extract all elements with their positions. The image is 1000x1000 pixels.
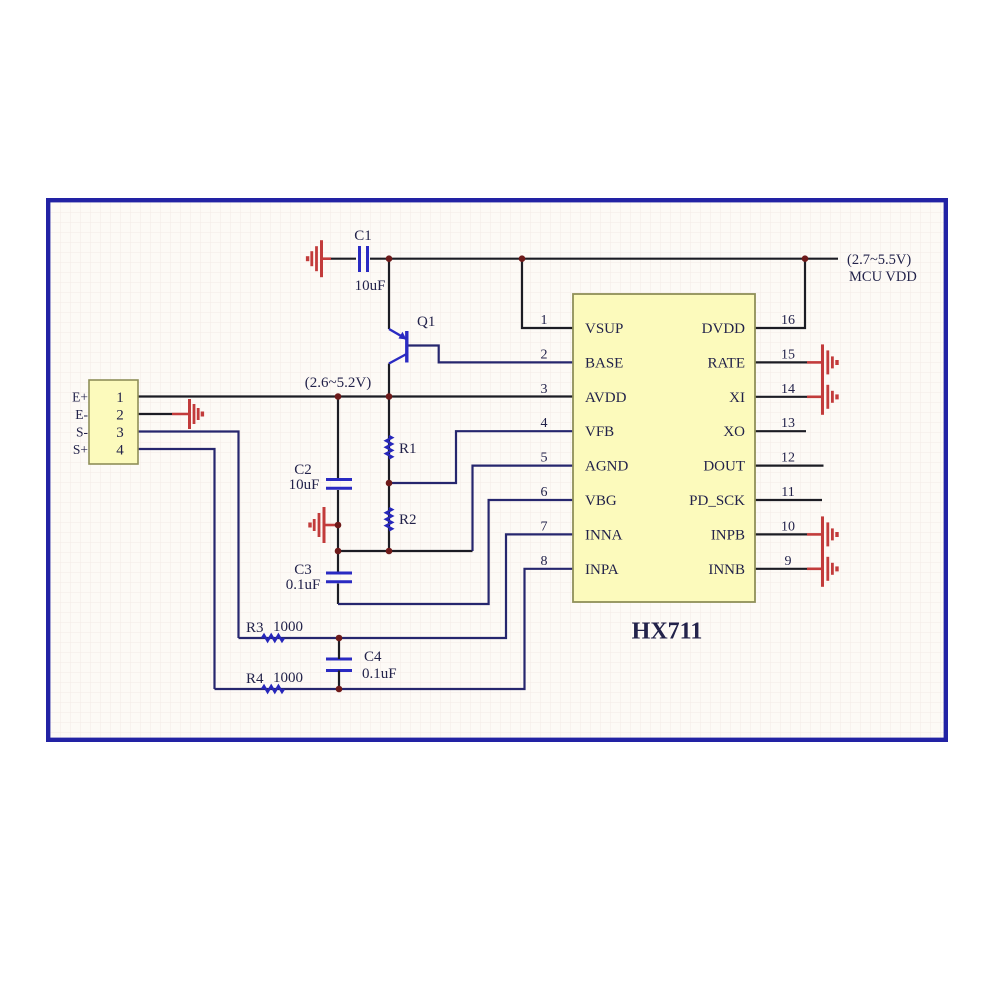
svg-text:(2.7~5.5V): (2.7~5.5V) <box>847 252 911 268</box>
wire C4 taps <box>338 638 340 689</box>
svg-text:S+: S+ <box>73 442 88 457</box>
svg-text:Q1: Q1 <box>417 314 435 330</box>
ground near C2 <box>310 507 338 543</box>
svg-text:C3: C3 <box>294 562 312 578</box>
wire XO stub <box>755 430 806 432</box>
svg-text:AGND: AGND <box>585 459 628 475</box>
svg-text:12: 12 <box>781 451 795 466</box>
wire AGND riser <box>473 466 574 551</box>
svg-text:10uF: 10uF <box>289 477 320 493</box>
wire S+ route <box>138 449 215 689</box>
wire VSUP drop <box>522 259 573 328</box>
svg-text:3: 3 <box>541 382 548 397</box>
wire E- stub <box>138 413 172 415</box>
svg-text:5: 5 <box>541 451 548 466</box>
resistor R4 <box>262 686 284 692</box>
wire VBG route <box>338 500 573 604</box>
svg-text:4: 4 <box>541 416 548 431</box>
resistor R3 <box>262 635 284 641</box>
connector pin numbers <box>116 390 124 459</box>
svg-text:8: 8 <box>541 554 548 569</box>
svg-text:VFB: VFB <box>585 424 614 440</box>
junction dots <box>335 255 809 692</box>
transistor Q1 <box>389 329 407 364</box>
svg-text:0.1uF: 0.1uF <box>362 666 397 682</box>
wire INPA route <box>215 569 574 689</box>
ground at RATE pin15 <box>807 344 837 380</box>
svg-text:DOUT: DOUT <box>703 459 745 475</box>
svg-text:10: 10 <box>781 519 795 534</box>
svg-text:C1: C1 <box>354 228 372 244</box>
ground near E- <box>172 399 202 429</box>
svg-text:10uF: 10uF <box>355 278 386 294</box>
svg-text:C2: C2 <box>294 462 312 478</box>
svg-text:16: 16 <box>781 313 795 328</box>
svg-text:RATE: RATE <box>708 355 746 371</box>
svg-text:XI: XI <box>729 390 745 406</box>
connector pin names <box>72 390 88 458</box>
svg-text:INNB: INNB <box>708 562 745 578</box>
capacitor C1 <box>360 246 368 272</box>
svg-text:INNA: INNA <box>585 527 623 543</box>
IC pin numbers right <box>781 313 795 569</box>
svg-text:13: 13 <box>781 416 795 431</box>
svg-text:3: 3 <box>116 425 124 441</box>
sheet background <box>48 200 946 740</box>
svg-text:15: 15 <box>781 347 795 362</box>
svg-text:E-: E- <box>75 407 88 422</box>
svg-text:VSUP: VSUP <box>585 321 623 337</box>
svg-text:11: 11 <box>781 485 794 500</box>
wire VDD top rail <box>331 258 356 260</box>
svg-text:1: 1 <box>116 390 124 406</box>
svg-text:XO: XO <box>723 424 745 440</box>
IC pin names left <box>585 321 628 578</box>
wire INPB stub <box>755 533 807 535</box>
svg-text:BASE: BASE <box>585 355 623 371</box>
wire RATE stub <box>755 361 807 363</box>
svg-text:INPB: INPB <box>711 527 745 543</box>
wire Q1 collector/emitter vertical <box>388 259 390 329</box>
svg-text:E+: E+ <box>72 390 88 405</box>
svg-text:R2: R2 <box>399 512 417 528</box>
connector J1 box <box>89 380 138 464</box>
svg-text:(2.6~5.2V): (2.6~5.2V) <box>305 375 371 391</box>
resistor R2 <box>386 508 392 530</box>
wire XI stub <box>755 396 807 398</box>
wire INNA route <box>239 534 574 638</box>
svg-text:9: 9 <box>785 554 792 569</box>
ground at INPB pin10 <box>807 516 837 552</box>
ground at INNB pin9 <box>807 551 837 587</box>
wire DOUT stub <box>755 465 824 467</box>
svg-text:1000: 1000 <box>273 670 303 686</box>
svg-text:VBG: VBG <box>585 493 617 509</box>
resistor R1 <box>386 436 392 458</box>
svg-text:HX711: HX711 <box>632 619 703 645</box>
ground near C1 <box>308 240 331 277</box>
wire AGND row <box>338 550 473 552</box>
svg-text:MCU VDD: MCU VDD <box>849 269 917 285</box>
svg-text:4: 4 <box>116 443 124 459</box>
wire PD_SCK stub <box>755 499 822 501</box>
svg-text:0.1uF: 0.1uF <box>286 577 321 593</box>
wire C2 vertical <box>337 397 339 479</box>
svg-text:R3: R3 <box>246 620 264 636</box>
svg-text:DVDD: DVDD <box>702 321 745 337</box>
wire Q1 base route <box>408 346 573 363</box>
svg-text:PD_SCK: PD_SCK <box>689 493 745 509</box>
wire C3 vertical <box>337 551 339 572</box>
ground at XI pin14 <box>807 379 837 415</box>
wire S- route <box>138 432 239 639</box>
svg-text:AVDD: AVDD <box>585 390 627 406</box>
svg-text:C4: C4 <box>364 649 382 665</box>
svg-text:6: 6 <box>541 485 548 500</box>
capacitor C4 <box>326 659 352 671</box>
svg-text:14: 14 <box>781 382 795 397</box>
sheet border frame <box>48 200 946 740</box>
svg-text:INPA: INPA <box>585 562 619 578</box>
svg-text:S-: S- <box>76 425 89 440</box>
capacitor C3 <box>326 573 352 582</box>
wire AVDD line <box>138 395 573 397</box>
wire INNB stub <box>755 568 807 570</box>
svg-text:1000: 1000 <box>273 619 303 635</box>
svg-text:1: 1 <box>541 313 548 328</box>
svg-text:R4: R4 <box>246 671 264 687</box>
svg-text:2: 2 <box>116 408 124 424</box>
wire R1 R2 vertical <box>388 397 390 552</box>
capacitor C2 <box>326 480 352 489</box>
svg-text:7: 7 <box>541 519 548 534</box>
wire DVDD drop <box>755 259 805 328</box>
IC U1 HX711 box <box>573 294 755 602</box>
IC pin numbers left <box>541 313 548 569</box>
IC pin names right <box>689 321 745 578</box>
svg-text:R1: R1 <box>399 441 417 457</box>
wire VFB route <box>389 431 573 483</box>
svg-text:2: 2 <box>541 347 548 362</box>
